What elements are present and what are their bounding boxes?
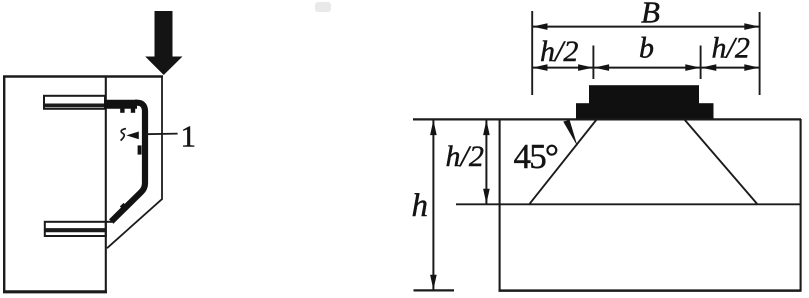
svg-text:h/2: h/2 bbox=[540, 35, 578, 68]
svg-text:45°: 45° bbox=[514, 137, 558, 176]
svg-text:h/2: h/2 bbox=[712, 32, 750, 65]
svg-text:h/2: h/2 bbox=[446, 140, 484, 173]
svg-text:b: b bbox=[639, 32, 654, 65]
svg-text:1: 1 bbox=[181, 119, 197, 154]
svg-text:B: B bbox=[641, 0, 660, 30]
svg-text:h: h bbox=[412, 188, 429, 224]
